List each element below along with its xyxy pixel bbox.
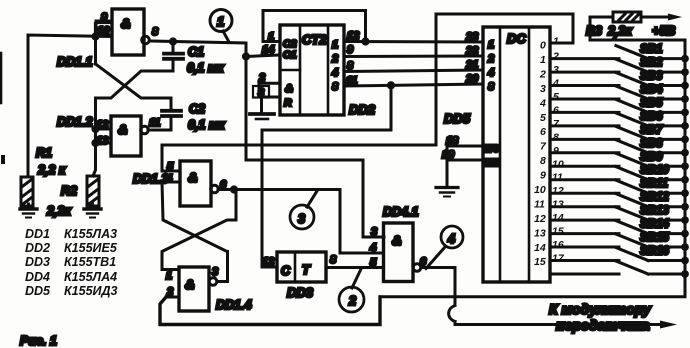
svg-text:CT2: CT2 bbox=[302, 32, 327, 47]
svg-text:К155ИД3: К155ИД3 bbox=[64, 284, 118, 298]
svg-text:W1: W1 bbox=[484, 158, 499, 169]
svg-text:4: 4 bbox=[539, 97, 546, 109]
wire: line B clock to DD4.1 pin 3 bbox=[246, 160, 384, 237]
svg-text:SB6: SB6 bbox=[640, 111, 663, 123]
svg-text:5: 5 bbox=[540, 112, 546, 124]
svg-text:C1: C1 bbox=[283, 49, 297, 61]
wire: cross-couple diagonal from C1 to DD1.2 input bbox=[96, 71, 174, 98]
wire: CT2 output 1 to DC input bbox=[344, 40, 483, 44]
svg-text:2: 2 bbox=[331, 53, 338, 65]
svg-text:&: & bbox=[392, 233, 401, 248]
svg-text:SB2: SB2 bbox=[640, 57, 663, 69]
svg-text:4: 4 bbox=[369, 242, 376, 254]
svg-text:C2: C2 bbox=[189, 102, 205, 116]
svg-text:15: 15 bbox=[534, 256, 546, 268]
svg-text:3: 3 bbox=[212, 266, 218, 278]
svg-text:8: 8 bbox=[540, 155, 546, 167]
svg-text:12: 12 bbox=[262, 256, 274, 268]
svg-text:7: 7 bbox=[540, 141, 547, 153]
svg-text:1: 1 bbox=[488, 39, 494, 51]
wire: line A from DC output 0 loop to DD1.3 pin 5 bbox=[162, 14, 573, 171]
ground below R1 bbox=[20, 204, 37, 218]
svg-text:SB14: SB14 bbox=[640, 219, 669, 231]
svg-text:7: 7 bbox=[553, 118, 560, 130]
svg-text:21: 21 bbox=[465, 59, 478, 71]
svg-text:SB16: SB16 bbox=[640, 246, 669, 258]
svg-text:8: 8 bbox=[553, 131, 559, 143]
svg-text:5: 5 bbox=[553, 91, 559, 103]
wire: +5V supply arrow bbox=[641, 14, 682, 39]
svg-text:SB9: SB9 bbox=[640, 151, 663, 163]
svg-text:DD2: DD2 bbox=[25, 241, 50, 255]
svg-text:3: 3 bbox=[371, 226, 377, 238]
scan artifact: page edge sliver bbox=[0, 53, 2, 103]
arrowhead to modulator bbox=[660, 321, 677, 329]
svg-text:9: 9 bbox=[347, 44, 354, 56]
svg-text:18: 18 bbox=[446, 135, 459, 147]
svg-text:R3: R3 bbox=[586, 24, 602, 38]
switch SB6 bbox=[550, 111, 687, 128]
svg-text:3: 3 bbox=[298, 212, 305, 226]
svg-text:11: 11 bbox=[149, 117, 160, 129]
svg-text:3: 3 bbox=[553, 64, 559, 76]
svg-text:22: 22 bbox=[465, 45, 478, 57]
svg-text:19: 19 bbox=[442, 149, 455, 161]
svg-text:R: R bbox=[284, 97, 292, 109]
svg-text:0: 0 bbox=[540, 40, 546, 52]
ground for DC bbox=[436, 188, 458, 197]
wire: DD4.1 output to modulator line with hop over bus bbox=[422, 268, 660, 325]
gate DD4.1 bbox=[363, 223, 427, 282]
svg-text:К155ЛА4: К155ЛА4 bbox=[64, 270, 117, 284]
svg-text:DD4: DD4 bbox=[25, 270, 50, 284]
svg-text:R2: R2 bbox=[61, 184, 77, 198]
ground below R2 bbox=[84, 204, 101, 218]
svg-text:SB5: SB5 bbox=[640, 97, 663, 109]
svg-text:SB10: SB10 bbox=[640, 165, 669, 177]
svg-text:C1: C1 bbox=[188, 45, 204, 59]
svg-text:DD5: DD5 bbox=[25, 284, 51, 298]
wire: DD3 output to DD4.1 pin 5 bbox=[326, 266, 384, 269]
svg-text:9: 9 bbox=[540, 170, 546, 182]
svg-text:11: 11 bbox=[552, 172, 563, 184]
svg-text:SB12: SB12 bbox=[640, 192, 669, 204]
svg-text:К модулятору: К модулятору bbox=[549, 301, 652, 317]
svg-text:DD1.4: DD1.4 bbox=[216, 298, 251, 312]
wire: CT2 reset pins 2,3 to ground bbox=[259, 83, 280, 113]
wire: clock line from DD1.1 output to CT2 area bbox=[152, 41, 281, 160]
node 4 bbox=[426, 226, 463, 269]
svg-text:2,2к: 2,2к bbox=[607, 24, 632, 38]
wire: cross-couple DD1.3 output to DD1.4 input 1 bbox=[162, 190, 236, 270]
svg-text:6: 6 bbox=[553, 104, 559, 116]
svg-text:13: 13 bbox=[552, 199, 564, 211]
switch SB2 bbox=[550, 57, 687, 74]
switch SB16 bbox=[550, 246, 687, 263]
node: DD1.2 input junction to R2 bbox=[93, 98, 98, 176]
wire: common bus to DD1.4 line bbox=[380, 295, 685, 298]
switch (unlabeled last row) bbox=[550, 261, 687, 276]
svg-text:&: & bbox=[188, 170, 197, 185]
resistor R2 bbox=[46, 176, 99, 218]
wire: CT2 output 2 to DC input bbox=[344, 55, 483, 59]
svg-text:16: 16 bbox=[552, 239, 564, 251]
node 3 bbox=[290, 191, 317, 229]
svg-text:К155ЛА3: К155ЛА3 bbox=[64, 227, 117, 241]
capacitor C2 bbox=[148, 98, 225, 132]
svg-text:1: 1 bbox=[540, 54, 546, 66]
wire: switch common top bus bbox=[590, 40, 685, 296]
svg-text:2: 2 bbox=[348, 294, 356, 308]
svg-text:2: 2 bbox=[539, 68, 546, 80]
svg-text:R1: R1 bbox=[36, 146, 52, 160]
svg-text:DD2: DD2 bbox=[349, 102, 376, 117]
svg-text:14: 14 bbox=[552, 212, 564, 224]
svg-text:SB11: SB11 bbox=[640, 178, 668, 190]
svg-text:DD4.1: DD4.1 bbox=[383, 205, 418, 219]
parts list bbox=[25, 227, 118, 298]
node 2 bbox=[339, 269, 364, 312]
op-amp/gate DD1.1 bbox=[95, 9, 159, 55]
svg-text:4: 4 bbox=[552, 78, 559, 90]
svg-text:13: 13 bbox=[534, 227, 546, 239]
wire: cross-couple diagonal from C2 to DD1.1 input bbox=[96, 64, 172, 98]
svg-text:3: 3 bbox=[540, 83, 546, 95]
wire: DD1.4 pin2 down to bottom line bbox=[160, 297, 380, 325]
switch SB13 bbox=[550, 205, 687, 222]
svg-text:+5В: +5В bbox=[652, 24, 675, 38]
svg-text:2,2к: 2,2к bbox=[46, 204, 71, 218]
svg-text:14: 14 bbox=[262, 44, 274, 56]
svg-text:&: & bbox=[185, 277, 194, 292]
resistor R3 bbox=[586, 12, 641, 38]
svg-text:&: & bbox=[121, 16, 130, 31]
svg-text:0,1 мк: 0,1 мк bbox=[188, 118, 225, 132]
svg-text:&: & bbox=[118, 122, 127, 137]
svg-text:T: T bbox=[302, 263, 311, 277]
svg-text:К155ИЕ5: К155ИЕ5 bbox=[64, 241, 118, 255]
counter DD2 (CT2) bbox=[280, 25, 344, 115]
wire: CT2 output 4 to DC input bbox=[344, 70, 483, 72]
svg-text:&: & bbox=[285, 83, 293, 95]
svg-text:DD5: DD5 bbox=[444, 111, 471, 126]
switch SB15 bbox=[550, 232, 687, 249]
decoder DD5 (DC) bbox=[483, 27, 550, 282]
svg-text:DD3: DD3 bbox=[287, 285, 314, 300]
svg-text:14: 14 bbox=[534, 242, 546, 254]
svg-text:SB3: SB3 bbox=[640, 71, 663, 83]
svg-text:SB8: SB8 bbox=[640, 138, 663, 150]
svg-text:DD3: DD3 bbox=[25, 255, 50, 269]
svg-text:Рис. 1: Рис. 1 bbox=[20, 334, 57, 348]
switch SB7 bbox=[550, 124, 687, 141]
svg-text:20: 20 bbox=[465, 73, 479, 85]
switch SB5 bbox=[550, 97, 687, 114]
svg-text:2: 2 bbox=[552, 51, 559, 63]
capacitor C1 bbox=[164, 39, 224, 75]
svg-text:2,2 к: 2,2 к bbox=[37, 163, 66, 177]
switch SB1 bbox=[550, 44, 687, 61]
wire: DC strobe pins 18,19 to ground bbox=[442, 135, 483, 187]
svg-text:1: 1 bbox=[166, 270, 172, 282]
svg-text:8: 8 bbox=[152, 26, 159, 38]
switch SB8 bbox=[550, 138, 687, 155]
ground for CT2 bbox=[250, 114, 274, 119]
svg-text:SB4: SB4 bbox=[640, 84, 663, 96]
switch SB11 bbox=[550, 178, 687, 195]
node 1 bbox=[210, 10, 232, 43]
switch SB9 bbox=[550, 151, 687, 168]
wire: cross-couple DD1.4 output to DD1.3 input 4 bbox=[162, 182, 228, 282]
switch SB3 bbox=[550, 71, 687, 88]
svg-text:передатчика: передатчика bbox=[556, 317, 650, 333]
svg-text:4: 4 bbox=[331, 67, 338, 79]
switch SB10 bbox=[550, 165, 687, 182]
svg-text:SB1: SB1 bbox=[640, 44, 662, 56]
wire: DD1.1 input node to left bus and R1 bbox=[28, 21, 112, 177]
DC output pin numbers bbox=[552, 36, 565, 265]
svg-text:8: 8 bbox=[330, 254, 337, 266]
gate DD1.4 bbox=[166, 266, 218, 311]
svg-text:5: 5 bbox=[370, 257, 377, 269]
svg-text:8: 8 bbox=[488, 81, 495, 93]
svg-text:15: 15 bbox=[552, 226, 564, 238]
wire: CT2 output 8 to DC input bbox=[344, 84, 483, 86]
switch SB12 bbox=[550, 192, 687, 209]
gate DD1.3 bbox=[162, 161, 227, 206]
svg-text:4: 4 bbox=[487, 67, 494, 79]
svg-text:12: 12 bbox=[534, 213, 546, 225]
svg-text:SB15: SB15 bbox=[640, 232, 669, 244]
svg-text:К155ТВ1: К155ТВ1 bbox=[64, 255, 116, 269]
svg-text:DD1.2: DD1.2 bbox=[57, 115, 92, 129]
svg-text:DD1.1: DD1.1 bbox=[57, 55, 92, 69]
svg-text:1: 1 bbox=[332, 39, 338, 51]
switch SB4 bbox=[550, 84, 687, 101]
svg-text:10: 10 bbox=[534, 184, 546, 196]
wire: DD1.3 output to DD4.1 pin 4 bbox=[218, 187, 384, 253]
switch SB14 bbox=[550, 219, 687, 236]
svg-text:11: 11 bbox=[534, 198, 545, 210]
svg-text:C: C bbox=[281, 264, 291, 278]
gate DD1.2 bbox=[96, 116, 161, 156]
svg-text:12: 12 bbox=[552, 185, 564, 197]
svg-text:DC: DC bbox=[507, 31, 526, 46]
svg-text:1: 1 bbox=[217, 14, 224, 29]
svg-text:17: 17 bbox=[552, 253, 565, 265]
svg-text:DD1: DD1 bbox=[25, 227, 50, 241]
wire: R3 left to common bus bbox=[590, 17, 613, 40]
svg-text:23: 23 bbox=[465, 31, 478, 43]
svg-text:6: 6 bbox=[540, 126, 546, 138]
svg-text:SB7: SB7 bbox=[640, 124, 663, 136]
svg-text:SB13: SB13 bbox=[640, 205, 669, 217]
svg-text:W0: W0 bbox=[484, 144, 499, 155]
svg-text:4: 4 bbox=[447, 232, 455, 246]
svg-text:8: 8 bbox=[332, 81, 339, 93]
wire: output 8 tap down to DD3 clock bbox=[262, 83, 394, 267]
svg-text:2: 2 bbox=[487, 53, 494, 65]
wire: feedback loop output1 to C2 input of CT2 bbox=[263, 11, 368, 45]
svg-text:10: 10 bbox=[552, 158, 564, 170]
svg-text:9: 9 bbox=[101, 12, 108, 24]
svg-text:9: 9 bbox=[553, 145, 559, 157]
trigger DD3 bbox=[262, 252, 337, 282]
svg-text:0,1 мк: 0,1 мк bbox=[187, 61, 224, 75]
resistor R1 bbox=[21, 146, 66, 206]
DC output labels 0-15 bbox=[534, 40, 547, 269]
svg-text:1: 1 bbox=[553, 36, 559, 48]
